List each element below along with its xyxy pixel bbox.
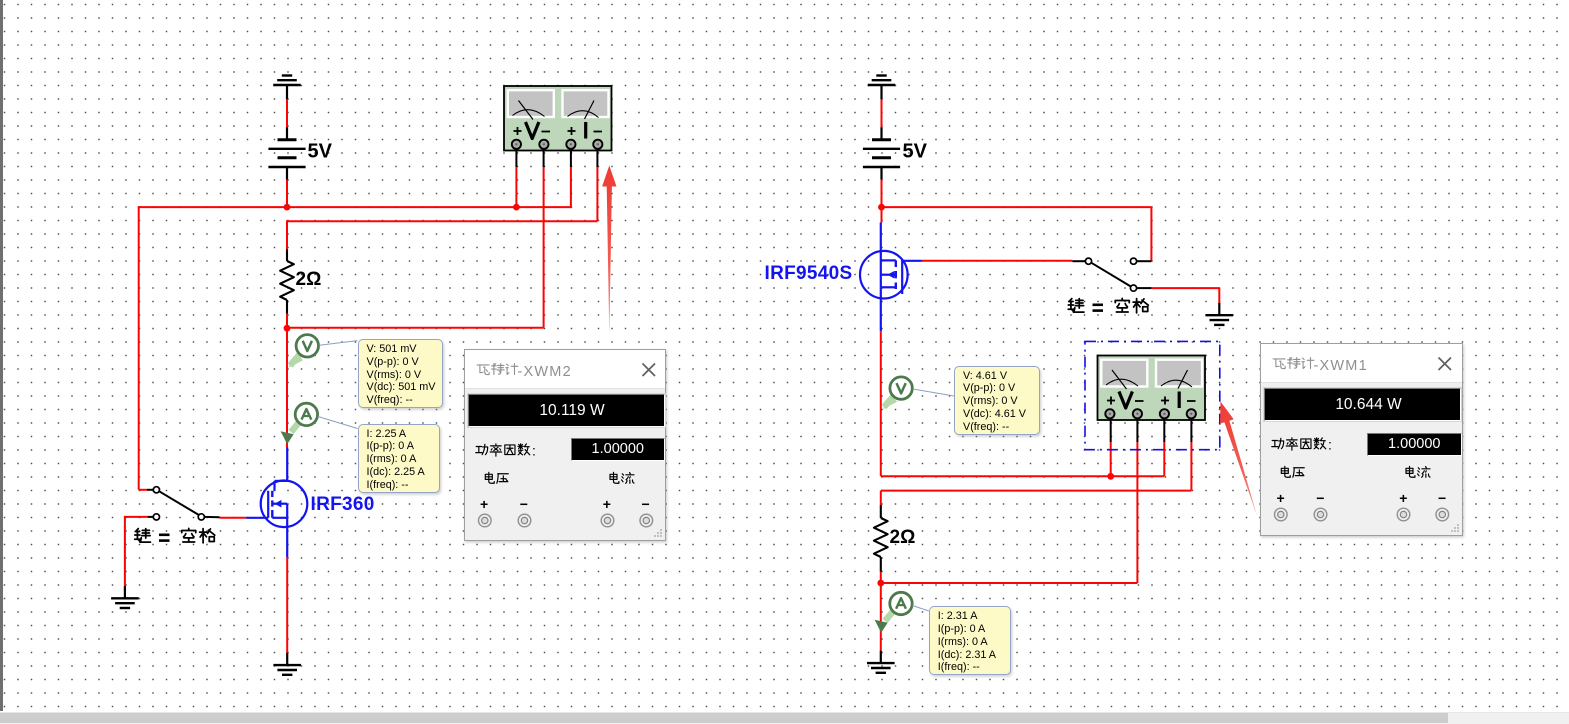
selection box (dashed, around XWM1 icon) (1085, 341, 1220, 449)
svg-text:2Ω: 2Ω (296, 269, 322, 290)
wattmeter XWM2 icon (504, 86, 612, 151)
red annotation arrow (points to XWM2 icon) (0, 0, 1, 1)
wire (node B down to Q1 drain) (286, 328, 288, 447)
wire (resistor R1 to node B) (286, 314, 288, 329)
wire (node C to Q2 source) (880, 207, 883, 251)
wire (horizontal bus y=207 to switch) (882, 207, 1152, 261)
wire (node E to XWM1 V- lead) (881, 420, 1138, 583)
svg-text:2Ω: 2Ω (890, 527, 916, 548)
battery V1 5V (left) (268, 127, 332, 179)
wire (battery V1 to node A) (286, 180, 288, 208)
node D junction (tap to XWM1 V+) (1107, 473, 1114, 480)
callout line (V probe right) (913, 389, 954, 396)
wire (bus y=476 to XWM1 I+) (881, 420, 1165, 476)
wire (Q2 gate to switch common) (922, 260, 1073, 262)
wire (switch throw to ground, right) (1151, 288, 1219, 303)
wire (horizontal bus y=221 resistor to XWM2 I-) (287, 150, 597, 250)
wire (XWM1 V+ lead) (1110, 420, 1112, 476)
callout line (V probe left) (319, 341, 357, 346)
svg-text:IRF360: IRF360 (311, 494, 375, 515)
probe readout V (right): V 4.61 V (954, 366, 1040, 435)
switch J2 (SPDT, key=space) (1072, 258, 1151, 291)
svg-text:IRF9540S: IRF9540S (765, 263, 853, 284)
transistor Q2 IRF9540S (P-MOSFET) (860, 251, 922, 299)
horizontal scrollbar track (0, 712, 1569, 724)
probe A1 (left current probe) (281, 403, 318, 444)
probe readout I (right): I 2.31 A (929, 606, 1011, 675)
label key = space (right switch) (1068, 298, 1148, 312)
ground symbol (top of V1, inverted) (273, 76, 301, 101)
ground symbol (top of V2, inverted) (868, 76, 896, 101)
svg-text:5V: 5V (308, 141, 333, 163)
probe V2 (right voltage probe) (882, 377, 912, 410)
svg-text::: : (1328, 437, 1332, 453)
wire (resistor R2 to node E) (880, 572, 882, 584)
node E junction (R2 bottom / V- / ground) (877, 580, 884, 587)
wire (battery V2 to node C) (881, 180, 883, 208)
svg-text:-XWM1: -XWM1 (1314, 358, 1368, 374)
wire (left rail down to switch) (139, 206, 147, 490)
switch J1 (SPDT, key=space) (147, 487, 220, 520)
wire (horizontal bus y=207) (139, 206, 571, 208)
ground (right switch) (1206, 303, 1234, 325)
battery V2 5V (right) (863, 127, 928, 179)
node (tap to XWM2 V+) (513, 204, 520, 211)
node A junction (battery / rail / wattmeter) (284, 204, 291, 211)
node B junction (resistor bottom / V- / drain) (284, 325, 291, 332)
probe A2 (right current probe) (875, 592, 913, 633)
callout line (A probe left) (318, 417, 358, 429)
wire (XWM2 V+ lead) (515, 150, 517, 208)
probe readout V (left): V 501 mV (358, 339, 444, 408)
wire (probe region to Q1, blue drain stub) (286, 448, 288, 483)
instrument panel wattmeter XWM2 (464, 349, 667, 542)
wire (ground to battery V2) (881, 99, 883, 127)
node C junction (battery / switch bus) (878, 204, 885, 211)
red annotation arrow (points to XWM1 icon) (0, 0, 1, 1)
wire (Q2 drain down to bus) (880, 298, 882, 476)
resistor R1 2 Ohm (left) (280, 250, 294, 314)
svg-text:5V: 5V (903, 141, 928, 163)
callout line (A probe right) (913, 606, 929, 612)
resistor R2 2 Ohm (right) (874, 505, 888, 572)
wire (switch throw to ground, left) (125, 516, 148, 586)
instrument panel wattmeter XWM1 (1260, 343, 1463, 536)
wire (node E down to ground) (880, 583, 882, 651)
wire (Q1 source down) (286, 527, 288, 653)
left canvas border (0, 0, 3, 711)
transistor Q1 IRF360 (N-MOSFET) (246, 481, 307, 528)
probe V1 (left voltage probe) (288, 335, 318, 368)
wire (ground to battery V1) (286, 99, 288, 127)
ground (left circuit bottom) (273, 653, 301, 675)
wire (XWM2 I+ lead) (570, 150, 572, 209)
horizontal scrollbar thumb (0, 713, 1448, 724)
wire (switch to Q1 gate) (220, 517, 247, 519)
label key = space (left switch) (135, 528, 215, 542)
svg-text:-XWM2: -XWM2 (517, 363, 571, 379)
wire (node B to XWM2 V- lead) (287, 150, 544, 328)
wattmeter XWM1 icon (1098, 356, 1206, 421)
svg-text::: : (532, 442, 536, 458)
ground (left switch) (111, 586, 139, 608)
probe readout I (left): I 2.25 A (358, 424, 440, 493)
wire (bus y=490 XWM1 I- to resistor R2) (881, 420, 1192, 505)
ground (right circuit bottom) (867, 651, 895, 673)
